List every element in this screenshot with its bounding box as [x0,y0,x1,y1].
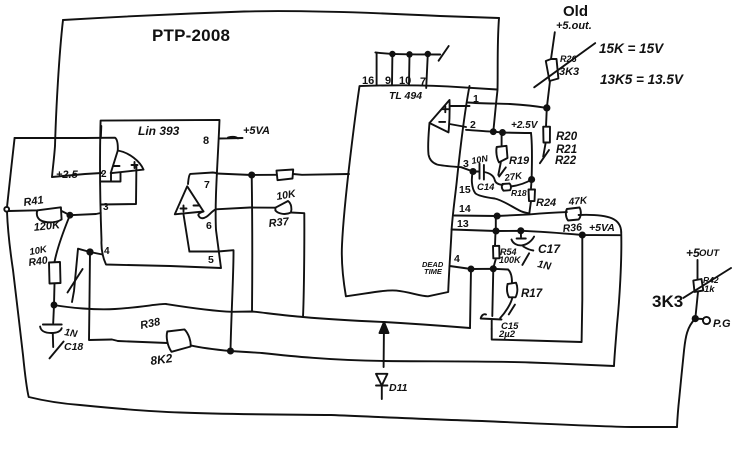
svg-text:3K3: 3K3 [652,292,683,311]
slash R20 [540,150,549,163]
node junction pin4 C15col [491,266,496,271]
resistor R17 [507,283,517,298]
svg-text:4: 4 [454,253,460,265]
resistor unnamed on pin7 wire [277,170,294,181]
svg-text:R36: R36 [562,221,582,235]
node junction pin2 outer [491,129,496,134]
wire C18 stub [52,334,54,348]
wire U1A output box [101,173,121,181]
svg-text:R20: R20 [556,131,578,143]
svg-text:R26: R26 [560,54,578,64]
slash R42 [683,268,731,298]
svg-text:+5VA: +5VA [589,222,615,234]
node input terminal circle [4,207,9,212]
wire PG node to terminal [695,318,702,320]
pin 9 stub [391,54,393,85]
wire R42 to PG node [695,292,698,319]
svg-text:27K: 27K [503,170,524,184]
wire error amp output loop to pin3 [428,123,473,172]
op-amp U1A comparator triangle [111,151,144,174]
svg-text:R38: R38 [139,316,162,332]
svg-text:5: 5 [208,254,214,266]
node junction pin4 left [87,249,92,254]
node junction pin3 [470,169,475,174]
IC U1 Lin393 box [100,120,221,268]
capacitor C15 [481,314,502,329]
svg-text:47K: 47K [567,195,588,208]
svg-text:7: 7 [420,76,426,88]
svg-text:R19: R19 [509,155,530,167]
svg-text:D11: D11 [389,382,408,394]
node bus pin9 [390,52,395,57]
svg-text:15: 15 [459,184,471,196]
wire outer left edge down to +2.5 [52,20,63,177]
pin 10 stub [408,54,411,84]
svg-text:13: 13 [457,218,469,230]
resistor R36 47K [566,208,581,221]
node junction R41 [67,213,72,218]
svg-text:13K5 = 13.5V: 13K5 = 13.5V [600,72,684,87]
wire pin7 column down [251,175,253,312]
svg-text:2: 2 [101,169,107,180]
op-amp U2 error amp triangle [430,100,450,132]
wire bottom boundary left [7,212,677,428]
svg-text:2µ2: 2µ2 [498,329,516,340]
slash R17 [509,305,515,315]
node junction pin13 C17 [518,228,523,233]
diode D11 symbol [376,374,387,399]
wire pin 13 [452,230,620,236]
wire C18 column [52,305,55,323]
svg-text:8K2: 8K2 [149,351,173,368]
wire pin 4 [450,266,508,270]
node junction pin14 [495,213,500,218]
op-amp U2 minus [439,121,445,123]
wire outer right edge down to pin2 [493,18,499,132]
wire U1B top to pin 7 [188,173,217,185]
svg-text:PTP-2008: PTP-2008 [152,26,230,45]
wire U1A plus column to pin3 [101,167,137,205]
op-amp U1A plus [132,162,138,168]
svg-text:8: 8 [203,135,209,147]
wire pin 6 to R37 [216,208,276,210]
svg-text:16: 16 [362,75,374,87]
node junction R40 bottom [52,303,57,308]
svg-text:TIME: TIME [424,267,443,276]
wire PG descender [677,319,695,427]
svg-text:100K: 100K [499,255,522,265]
svg-text:1N: 1N [536,258,552,273]
svg-text:15K = 15V: 15K = 15V [599,41,664,56]
svg-text:14: 14 [459,203,471,215]
op-amp U1B comparator triangle [175,186,204,214]
capacitor C14 [473,164,484,180]
svg-text:3: 3 [103,202,109,213]
wire pin 7 [217,174,277,176]
resistor R19 [496,133,507,176]
wire pin 1 [468,103,547,108]
svg-text:Old: Old [563,3,588,20]
pin 16 stub [376,53,378,85]
svg-text:R17: R17 [521,288,543,300]
resistor R26 [546,32,559,108]
wire R38 to pin5 node [191,345,614,366]
capacitor C18 [40,325,62,334]
wire line A up to pin4 dot [470,269,471,328]
svg-text:R24: R24 [536,197,556,209]
op-amp U1A minus [114,165,120,167]
resistor R37 [275,201,291,214]
wire R17 to C15 [500,297,512,318]
wire U1B output squiggle to pin6 [198,209,216,218]
node junction pin13 R54 [493,228,498,233]
node bus pin10 [407,52,412,57]
slash R19 [499,167,506,176]
node junction pin7 [249,172,254,177]
svg-text:7: 7 [204,179,210,191]
wire error amp plus input [451,105,470,107]
svg-text:C18: C18 [64,341,83,353]
svg-text:10N: 10N [471,153,489,166]
svg-text:C14: C14 [477,182,495,193]
wire 47K right [579,215,622,232]
resistor R38 [118,329,191,351]
svg-text:2: 2 [470,119,476,131]
node PG terminal circle [703,317,710,324]
pin 8 wire [219,137,243,139]
resistor R20 [543,108,550,157]
op-amp U1B minus [194,205,200,207]
svg-text:9: 9 [385,75,391,87]
wire error amp minus input [450,124,467,127]
wire R40 to junction [53,284,56,306]
svg-text:OUT: OUT [699,248,720,259]
wire pin 2 [466,130,531,133]
svg-text:+5.out.: +5.out. [556,20,592,32]
svg-text:1k: 1k [704,284,715,295]
resistor R54 [493,217,500,269]
node junction pin1 R26 [544,105,549,110]
wire +5out to R42 [697,260,699,279]
wire box bottom and right [492,235,583,342]
slash bus end [439,46,449,61]
svg-text:3K3: 3K3 [559,66,579,78]
node junction pin13 box [580,232,585,237]
svg-text:R41: R41 [23,194,45,209]
svg-text:120K: 120K [33,219,61,234]
wire +2.5 to pin 2 [52,173,102,177]
svg-text:C17: C17 [538,242,561,256]
svg-text:4: 4 [104,246,110,257]
wire right vertical [614,232,621,366]
svg-text:P.G: P.G [713,318,731,330]
slash R40 [68,269,83,293]
svg-text:10K: 10K [275,188,297,203]
svg-text:TL 494: TL 494 [389,90,422,102]
wire C15 column [492,269,493,316]
wire junction down to R40 [55,215,70,262]
wire top bus [375,52,440,54]
squiggle C17 [522,247,533,265]
wire 27K up to R24 node [511,180,532,187]
svg-text:+2.5: +2.5 [56,169,79,181]
svg-text:R18: R18 [511,188,527,198]
wire pin 14 [454,212,567,216]
svg-text:+5VA: +5VA [243,125,270,137]
svg-text:10: 10 [399,75,411,87]
wire pin2 corner down to R24 node [531,133,532,180]
wire pin4 vertical loop [72,249,90,302]
diode D11 arrow [383,322,385,367]
node bus pin7 [426,52,431,57]
resistor R41 [9,207,70,222]
outer loop wire top edge [63,11,499,20]
wire input loop to U1A top [15,138,118,151]
wire line A main [54,304,470,328]
wire pin4 to Lin393 [90,252,103,255]
wire box left edge to terminal [7,138,15,207]
svg-text:6: 6 [206,220,212,232]
op-amp U2 plus [442,106,448,112]
op-amp U1B plus [181,206,187,212]
IC U2 TL494 box [342,85,497,296]
resistor R24 [529,180,536,214]
svg-text:R40: R40 [28,254,49,269]
node junction R38 pin5 [228,348,233,353]
capacitor C17 [512,231,535,246]
pin 7 stub [426,54,428,88]
wire pin7 to TL494 [293,173,349,176]
svg-text:+2.5V: +2.5V [511,120,539,131]
svg-text:3: 3 [463,158,469,170]
slash C18 [50,342,64,359]
node junction PG [693,316,698,321]
wire pin4 column down to R38 [89,252,118,341]
resistor R40 [49,262,61,284]
svg-text:Lin 393: Lin 393 [138,124,180,138]
wire R41 to pin 3 [70,213,101,215]
wire R37 right and down [291,213,304,318]
node junction pin4 A [469,267,474,272]
pin 1 stub [100,126,103,138]
svg-text:+5: +5 [686,246,700,260]
wire R17 hang [508,270,512,283]
wire pin 5 column [189,250,233,351]
svg-text:R22: R22 [555,155,577,167]
resistor R18 27K [502,184,511,191]
resistor R42 [693,279,703,292]
node junction pin2 R19 [500,130,505,135]
node junction R24 top [529,177,534,182]
svg-text:1N: 1N [63,327,78,340]
wire C14 to 27K resistor [484,172,503,185]
slash R26 [534,43,595,87]
wire pin15 loop to pin14 [472,172,529,214]
svg-text:R37: R37 [268,216,290,230]
wire U1B plus column [184,214,190,251]
